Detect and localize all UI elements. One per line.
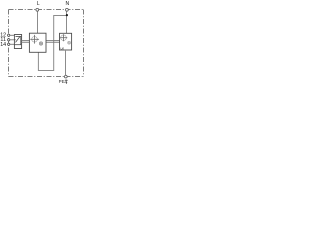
node N terminal circle bbox=[66, 8, 69, 11]
wire N branch to varistor bottom bbox=[38, 16, 66, 71]
wire terminal 12 to FM box bbox=[10, 34, 14, 36]
spark gap cross vertical bbox=[63, 34, 65, 41]
disconnector cross horizontal bbox=[30, 38, 38, 40]
node L terminal circle bbox=[36, 8, 39, 11]
disconnector arrow head bbox=[38, 39, 40, 41]
spark gap arrow head bbox=[66, 37, 67, 39]
svg-text:14: 14 bbox=[0, 42, 6, 48]
disconnector symbol circle bbox=[32, 37, 38, 43]
defect indicator circle (varistor) bbox=[39, 42, 43, 46]
wire L down to varistor module bbox=[37, 11, 39, 33]
spark gap cross horizontal bbox=[60, 37, 67, 39]
node PE terminal circle bbox=[64, 75, 67, 78]
wire spark gap to PE bbox=[65, 50, 67, 75]
mechanical linkage double line FM to varistor bbox=[22, 40, 30, 42]
mechanical linkage double line varistor to spark gap bbox=[46, 40, 60, 42]
wire terminal 11 to FM box bbox=[10, 39, 14, 41]
wire terminal 14 to FM box bbox=[10, 43, 14, 45]
spark gap disconnector circle bbox=[61, 35, 67, 41]
FM changeover contact: blade bbox=[16, 37, 20, 43]
junction dot on N wire bbox=[66, 14, 68, 16]
FM changeover contact: right bar bbox=[20, 37, 22, 45]
FM changeover contact: middle stub bbox=[14, 39, 15, 41]
FM changeover contact: top contact line bbox=[16, 36, 22, 38]
wire N down to spark gap module bbox=[66, 11, 68, 33]
varistor module box bbox=[29, 33, 46, 52]
disconnector cross vertical bbox=[34, 35, 36, 44]
FM changeover contact: bottom contact line bbox=[14, 44, 21, 46]
defect indicator circle (spark gap) bbox=[68, 41, 71, 44]
terminal circle 14 bbox=[8, 43, 10, 45]
spark gap module box bbox=[60, 33, 72, 50]
svg-text:U/I: U/I bbox=[60, 46, 64, 50]
terminal circle 12 bbox=[8, 34, 10, 36]
terminal circle 11 bbox=[8, 39, 10, 41]
FM remote signalling contact box bbox=[14, 35, 21, 49]
svg-text:PE/: PE/ bbox=[59, 79, 67, 84]
earth symbol bbox=[65, 80, 68, 83]
svg-text:N: N bbox=[66, 1, 70, 7]
device boundary dash-dot border bbox=[9, 10, 85, 77]
svg-text:L: L bbox=[37, 1, 40, 7]
